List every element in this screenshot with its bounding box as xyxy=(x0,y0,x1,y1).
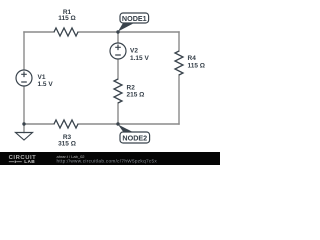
NODE2 label xyxy=(118,125,150,144)
svg-text:215 Ω: 215 Ω xyxy=(127,92,145,99)
svg-text:NODE2: NODE2 xyxy=(122,134,147,143)
voltage source V1 xyxy=(16,70,32,86)
svg-text:1.5 V: 1.5 V xyxy=(38,81,54,88)
resistor R3 xyxy=(54,120,78,128)
svg-text:115 Ω: 115 Ω xyxy=(58,15,76,22)
wire top rail right segment xyxy=(78,31,179,33)
watermark bar xyxy=(0,152,220,165)
wire middle rail V2 top lead xyxy=(117,32,119,43)
resistor R2 xyxy=(114,79,122,103)
wire ground stub xyxy=(23,124,25,133)
voltage source V2 xyxy=(110,43,126,59)
wire bottom rail left segment xyxy=(24,123,54,125)
wire middle rail R2 bottom lead xyxy=(117,103,119,124)
ground junction xyxy=(22,122,25,125)
svg-text:V2: V2 xyxy=(130,48,138,55)
wire left rail upper xyxy=(23,32,25,70)
svg-text:LAB: LAB xyxy=(24,159,35,165)
svg-text:1.15 V: 1.15 V xyxy=(130,55,149,62)
wire bottom rail right segment xyxy=(78,123,179,125)
svg-text:V1: V1 xyxy=(38,74,46,81)
node B junction (NODE2) xyxy=(116,122,119,125)
svg-text:http://www.circuitlab.com/c/7h: http://www.circuitlab.com/c/7hW5pzkq7c5x xyxy=(57,159,158,164)
ground xyxy=(16,133,33,141)
wire right rail upper xyxy=(178,32,180,51)
svg-text:115 Ω: 115 Ω xyxy=(188,63,206,70)
svg-text:R2: R2 xyxy=(127,85,136,92)
svg-text:NODE1: NODE1 xyxy=(122,14,147,23)
NODE1 label xyxy=(118,13,149,32)
wire right rail lower xyxy=(178,75,180,124)
svg-text:R4: R4 xyxy=(188,55,197,62)
svg-text:315 Ω: 315 Ω xyxy=(58,141,76,148)
node A junction (NODE1) xyxy=(116,30,119,33)
resistor R1 xyxy=(54,28,78,36)
wire top rail left segment xyxy=(24,31,54,33)
wire left rail lower xyxy=(23,86,25,124)
resistor R4 xyxy=(175,51,183,75)
wire middle rail between V2 and R2 xyxy=(117,59,119,79)
